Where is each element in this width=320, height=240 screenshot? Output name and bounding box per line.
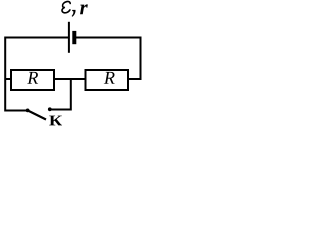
wire: bottom-left segment, left rail and top-left wire to battery (5, 38, 69, 111)
resistor R2 box (86, 70, 129, 90)
wire: between R1 and R2 (53, 78, 87, 80)
switch K left contact dot (26, 109, 30, 113)
battery G1 short thick plate (72, 31, 76, 44)
label K switch, bold (49, 116, 62, 126)
resistor R1 box (11, 70, 54, 90)
label comma after script-E (72, 10, 76, 17)
battery G1 long thin plate (68, 22, 70, 53)
label R1 value R, italic (27, 72, 38, 84)
node: middle junction down-wire to switch (50, 78, 71, 110)
wire: left rail stub to resistor R1 (5, 78, 12, 80)
switch K right contact dot (48, 107, 52, 111)
wire: top-right wire from battery, right rail down, stub into R2 (74, 38, 140, 80)
label r internal resistance, bold italic (80, 4, 88, 14)
switch K blade (open) (28, 110, 46, 119)
label EMF script-E (62, 1, 70, 12)
label R2 value R, italic (104, 72, 115, 84)
